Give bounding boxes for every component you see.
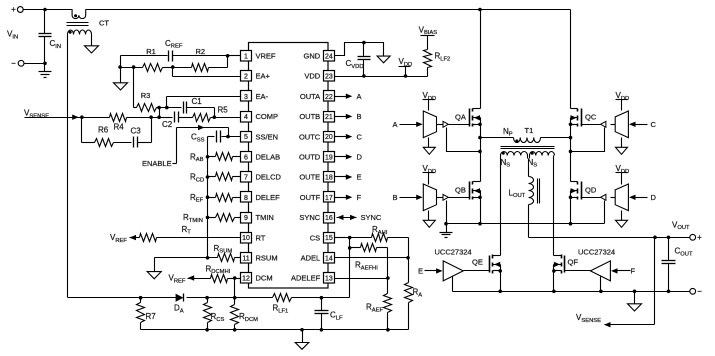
svg-text:17: 17 [325,195,333,202]
resistor RLF1 [273,294,292,315]
svg-text:F: F [631,267,636,276]
wire QE drain [500,156,502,292]
driver buffer A [393,91,449,154]
junction CLF top [320,296,324,300]
wire R6 branch down [82,118,95,143]
label NS right [528,158,538,169]
pin 19 OUTD [299,152,335,163]
pin 3 EA- [241,91,269,102]
wire VIN+ to rail [24,9,45,11]
junction CIN bottom [43,62,47,66]
svg-text:EA-: EA- [256,92,269,101]
wire QD gate [581,197,601,199]
svg-text:11: 11 [242,255,249,262]
junction QF node [552,269,556,273]
wire C1 branch [160,107,182,109]
transformer T1 secondary left [501,152,528,156]
junction R3 right [157,106,161,110]
svg-text:GND: GND [304,52,321,61]
wire VREF row [121,55,241,57]
transformer T1 secondary right [530,152,555,156]
svg-text:9: 9 [244,215,248,222]
resistor RAHI [350,225,409,257]
junction R2 top [226,54,230,58]
svg-text:DELAB: DELAB [256,153,281,162]
wire CT secondary right [91,35,93,46]
resistor R6 [95,126,132,147]
svg-text:OUTE: OUTE [299,173,320,182]
capacitor C2 [160,112,179,130]
resistor R7 [137,298,157,330]
svg-text:3: 3 [244,94,248,101]
junction EA- node [165,106,169,110]
transistor QD [571,182,597,200]
label VREF RT [110,233,127,244]
junction QE node [498,269,502,273]
wire top rail left [45,9,73,11]
label VIN [7,30,18,41]
wire E input [425,268,443,273]
junction ENABLE SS [226,135,230,139]
svg-text:QA: QA [455,112,466,121]
transistor QF [554,255,579,274]
svg-text:CS: CS [310,233,320,242]
capacitor C3 [131,127,142,148]
junction rail RDCM [233,328,237,332]
svg-text:OUTC: OUTC [299,132,321,141]
wire bottom rail [141,329,409,331]
junction R7 top [139,296,143,300]
svg-text:COMP: COMP [256,112,279,121]
resistor RA [405,258,423,330]
transistor QC [571,109,597,127]
resistor RCD [190,173,241,184]
wire C1 to COMP [187,108,215,118]
driver QF triangle [590,261,610,281]
svg-text:10: 10 [242,235,250,242]
junction RDCM row [233,296,237,300]
wire QC return [571,128,605,152]
svg-text:R7: R7 [146,312,157,321]
wire LOUT out [529,205,690,238]
svg-text:ADELEF: ADELEF [291,274,321,283]
svg-text:22: 22 [325,94,333,101]
junction VSENSE node [157,115,161,119]
label UCC27324 right [578,247,615,256]
svg-text:8: 8 [244,195,248,202]
junction CVDD bottom [362,74,366,78]
resistor R2 [173,47,228,72]
wire top rail [86,9,571,11]
ground RSUM [147,258,161,279]
svg-text:+: + [697,233,702,242]
resistor REF [190,193,241,204]
junction RDCM top [233,276,237,280]
svg-text:UCC27324: UCC27324 [435,247,472,256]
label VSENSE out [576,313,601,324]
junction R3 tap [132,65,136,69]
wire bridge right leg [570,10,572,224]
svg-text:R3: R3 [141,91,151,100]
capacitor CVDD [346,43,371,77]
svg-text:1: 1 [244,53,248,60]
svg-text:D: D [357,153,363,162]
pin 14 ADEL [301,253,335,264]
transistor QE [472,255,501,274]
junction R4 left [80,115,84,119]
svg-text:C: C [357,132,363,141]
junction QA return [478,150,482,154]
resistor RSUM [214,244,235,262]
pin 22 OUTA [300,91,335,102]
wire DCM row [188,275,241,280]
node VIN- terminal [11,59,24,68]
svg-text:4: 4 [244,114,248,121]
pin 10 RT [241,233,266,244]
resistor RAB [190,152,241,163]
junction QD node [569,196,573,200]
junction QC node [569,136,573,140]
junction QC source [569,123,573,127]
capacitor CLF [315,298,344,330]
node C out [335,132,363,141]
transistor QB [455,182,481,200]
transformer T1 core [501,147,555,149]
ground primary rail [440,224,453,238]
driver buffer C [601,91,657,154]
resistor RAEF [366,279,392,330]
svg-text:−: − [11,59,16,68]
wire primary right [541,137,571,139]
pin 15 CS [310,233,335,244]
label Np [503,127,513,138]
junction rail RCS [205,328,209,332]
label VOUT [672,220,690,231]
label ENABLE [142,159,172,168]
junction C1 COMP [213,115,217,119]
svg-text:EA+: EA+ [256,72,271,81]
pin 21 OUTB [299,112,334,123]
ground input [39,64,52,78]
wire QC gate [581,124,601,126]
wire EA- row [167,97,241,108]
pin 5 SS/EN [241,132,279,143]
svg-text:C2: C2 [162,120,173,129]
svg-text:E: E [357,173,362,182]
junction QD source [569,222,573,226]
driver buffer D [601,164,657,227]
node E out [335,173,362,182]
transistor QA [455,109,481,127]
label VDD [399,57,413,76]
svg-text:QF: QF [568,258,579,267]
wire QF drain [553,156,555,292]
capacitor COUT [662,238,693,292]
pin 23 VDD [304,71,334,82]
pin 12 DCM [241,273,273,284]
node D out [335,153,363,162]
svg-text:OUTD: OUTD [299,153,321,162]
svg-text:CT: CT [99,19,109,28]
wire VSENSE [25,115,107,120]
svg-text:SS/EN: SS/EN [256,132,279,141]
wire EA+ row [173,68,241,77]
junction CVDD top [362,41,366,45]
svg-text:R6: R6 [98,126,109,135]
svg-text:VREF: VREF [256,52,276,61]
wire QA return [447,128,481,152]
svg-text:C: C [651,120,657,129]
junction COUT top [667,236,671,240]
IC U1 body [249,43,329,289]
junction QA source [478,123,482,127]
junction bus row8 [206,195,210,199]
wire bridge left leg [480,10,482,224]
resistor RLF2 [424,36,451,77]
junction bus row9 [206,216,210,220]
ground CVDD [377,56,390,63]
svg-text:13: 13 [325,276,333,283]
wire QE gate [464,270,490,272]
label VBIAS [419,25,438,36]
node SYNC [337,213,382,222]
junction QC return [569,150,573,154]
wire CS row [335,237,350,239]
pin 6 DELAB [241,152,281,163]
svg-text:R1: R1 [146,47,156,56]
pin 9 TMIN [241,213,274,224]
svg-text:F: F [357,193,362,202]
junction RCS top [205,296,209,300]
transformer CT core [67,23,89,26]
wire RT row [130,235,241,240]
wire QB gate [449,197,470,199]
svg-text:T1: T1 [525,126,534,135]
svg-text:QE: QE [472,258,483,267]
wire VSENSE out [604,238,655,328]
wire C3 up [138,118,152,143]
junction R1 R2 mid [171,65,175,69]
pin 18 OUTE [299,172,334,183]
node VOUT+ terminal [690,233,702,242]
wire ADELEF row [335,278,388,280]
wire GND loop [335,43,384,57]
junction QF return [599,290,603,294]
svg-text:RT: RT [256,233,266,242]
capacitor CSS [191,131,241,144]
wire ground bus [207,137,209,258]
svg-text:21: 21 [325,114,333,121]
pin 4 COMP [241,112,279,123]
resistor RTMIN [183,213,241,224]
svg-text:−: − [697,287,702,296]
wire ADEL row [335,257,409,259]
svg-text:14: 14 [325,255,333,262]
driver buffer B [393,164,449,227]
svg-text:VDD: VDD [304,72,320,81]
svg-text:A: A [393,120,398,129]
junction rail RAEF [386,328,390,332]
svg-text:B: B [357,112,362,121]
wire ENABLE [173,125,229,164]
wire VIN- to CIN [25,63,45,65]
svg-text:B: B [393,193,398,202]
wire R3 tap down [133,68,135,108]
wire F input [611,268,631,273]
junction QB gate node [478,196,482,200]
label CT [99,19,109,28]
svg-text:R5: R5 [218,106,229,115]
svg-text:RSUM: RSUM [256,254,278,263]
resistor R1 [121,47,173,72]
wire QB return [446,201,448,224]
wire CS drop [349,238,351,298]
junction QA node [478,136,482,140]
wire VREF left drop [120,56,122,68]
svg-text:5: 5 [244,134,248,141]
svg-text:C3: C3 [131,127,142,136]
node A out [335,92,362,101]
junction rail CLF [320,328,324,332]
wire CT secondary left down [67,35,69,298]
resistor RCS [204,298,225,330]
junction QB return [444,222,448,226]
label VREF DCM [169,274,186,285]
node B out [335,112,362,121]
transformer T1 primary [514,138,541,143]
svg-text:16: 16 [325,215,333,222]
svg-text:R4: R4 [114,123,125,132]
resistor R3 [134,91,160,112]
pin 1 VREF [241,51,276,62]
svg-text:D: D [651,193,657,202]
wire QE return [452,277,454,292]
transformer CT primary [72,10,86,19]
capacitor CIN [39,10,62,64]
wire output minus rail [453,291,690,293]
resistor RT [140,225,192,242]
wire VDD row [335,76,428,78]
resistor RDCM [231,279,259,330]
svg-text:SYNC: SYNC [299,213,320,222]
svg-text:C1: C1 [192,97,203,106]
pin 17 OUTF [300,192,335,203]
svg-text:7: 7 [244,175,248,182]
svg-text:ADEL: ADEL [301,254,321,263]
ground VREF divider [114,68,128,91]
junction VDD tick [404,74,408,78]
svg-text:UCC27324: UCC27324 [578,247,615,256]
resistor R5 [179,106,241,122]
diode DA [174,294,184,315]
resistor R4 [107,114,160,132]
ground bottom rail [295,330,309,350]
ground CT [85,46,99,53]
junction RAEFHI tap [348,246,352,250]
junction ADELEF [386,276,390,280]
junction ADEL [406,256,410,260]
svg-text:19: 19 [325,154,333,161]
wire QA gate [449,124,470,126]
label F [631,267,636,276]
inductor LOUT [509,177,540,205]
svg-text:DELEF: DELEF [256,193,281,202]
ground output [628,292,642,312]
wire CT return row [68,297,350,299]
junction CIN top [43,8,47,12]
label T1 [525,126,534,135]
wire primary gnd rail [447,223,605,225]
junction bus row6 [206,155,210,159]
svg-text:ENABLE: ENABLE [142,159,172,168]
wire QF gate [565,270,591,272]
svg-text:6: 6 [244,154,248,161]
junction COUT bottom [667,290,671,294]
label NS left [501,158,511,169]
junction CS node [348,236,352,240]
junction R1 left [118,65,122,69]
resistor RAEFHI [350,244,388,279]
pin 2 EA+ [241,71,271,82]
node VIN+ terminal [11,5,23,14]
resistor RDCMHI [206,264,231,282]
svg-text:QD: QD [585,185,597,194]
capacitor CREF [165,39,183,62]
junction QE source [498,290,502,294]
pin 24 GND [304,51,335,62]
label UCC27324 left [435,247,472,256]
pin 7 DELCD [241,172,282,183]
junction rail gnd [300,328,304,332]
wire QD return [604,201,606,224]
svg-text:DELCD: DELCD [256,173,282,182]
wire node drop [159,108,161,118]
svg-text:R2: R2 [196,47,206,56]
label VSENSE [24,109,49,120]
junction QB source [478,222,482,226]
svg-text:SYNC: SYNC [361,213,382,222]
pin 11 RSUM [241,253,278,264]
wire QF return [600,277,602,292]
junction QF source [552,290,556,294]
wire center tap [528,156,530,177]
wire primary left [481,137,514,139]
svg-text:DCM: DCM [256,274,273,283]
junction bus row11 [206,256,210,260]
svg-text:OUTA: OUTA [300,92,320,101]
label E [418,267,423,276]
svg-text:20: 20 [325,134,333,141]
svg-text:OUTF: OUTF [300,193,321,202]
svg-text:2: 2 [244,74,248,81]
svg-text:12: 12 [242,276,250,283]
svg-text:+: + [11,5,16,14]
transformer CT secondary [68,30,92,35]
svg-text:18: 18 [325,175,333,182]
svg-text:TMIN: TMIN [256,213,274,222]
pin 16 SYNC [299,213,334,224]
capacitor C1 [184,97,203,114]
svg-text:23: 23 [325,74,333,81]
wire RSUM row [155,257,241,259]
svg-text:OUTB: OUTB [299,112,320,121]
node VOUT- terminal [690,287,702,296]
svg-text:24: 24 [325,53,333,60]
node F out [335,193,362,202]
svg-text:E: E [418,267,423,276]
junction rail gnd out [633,290,637,294]
junction bus row7 [206,175,210,179]
